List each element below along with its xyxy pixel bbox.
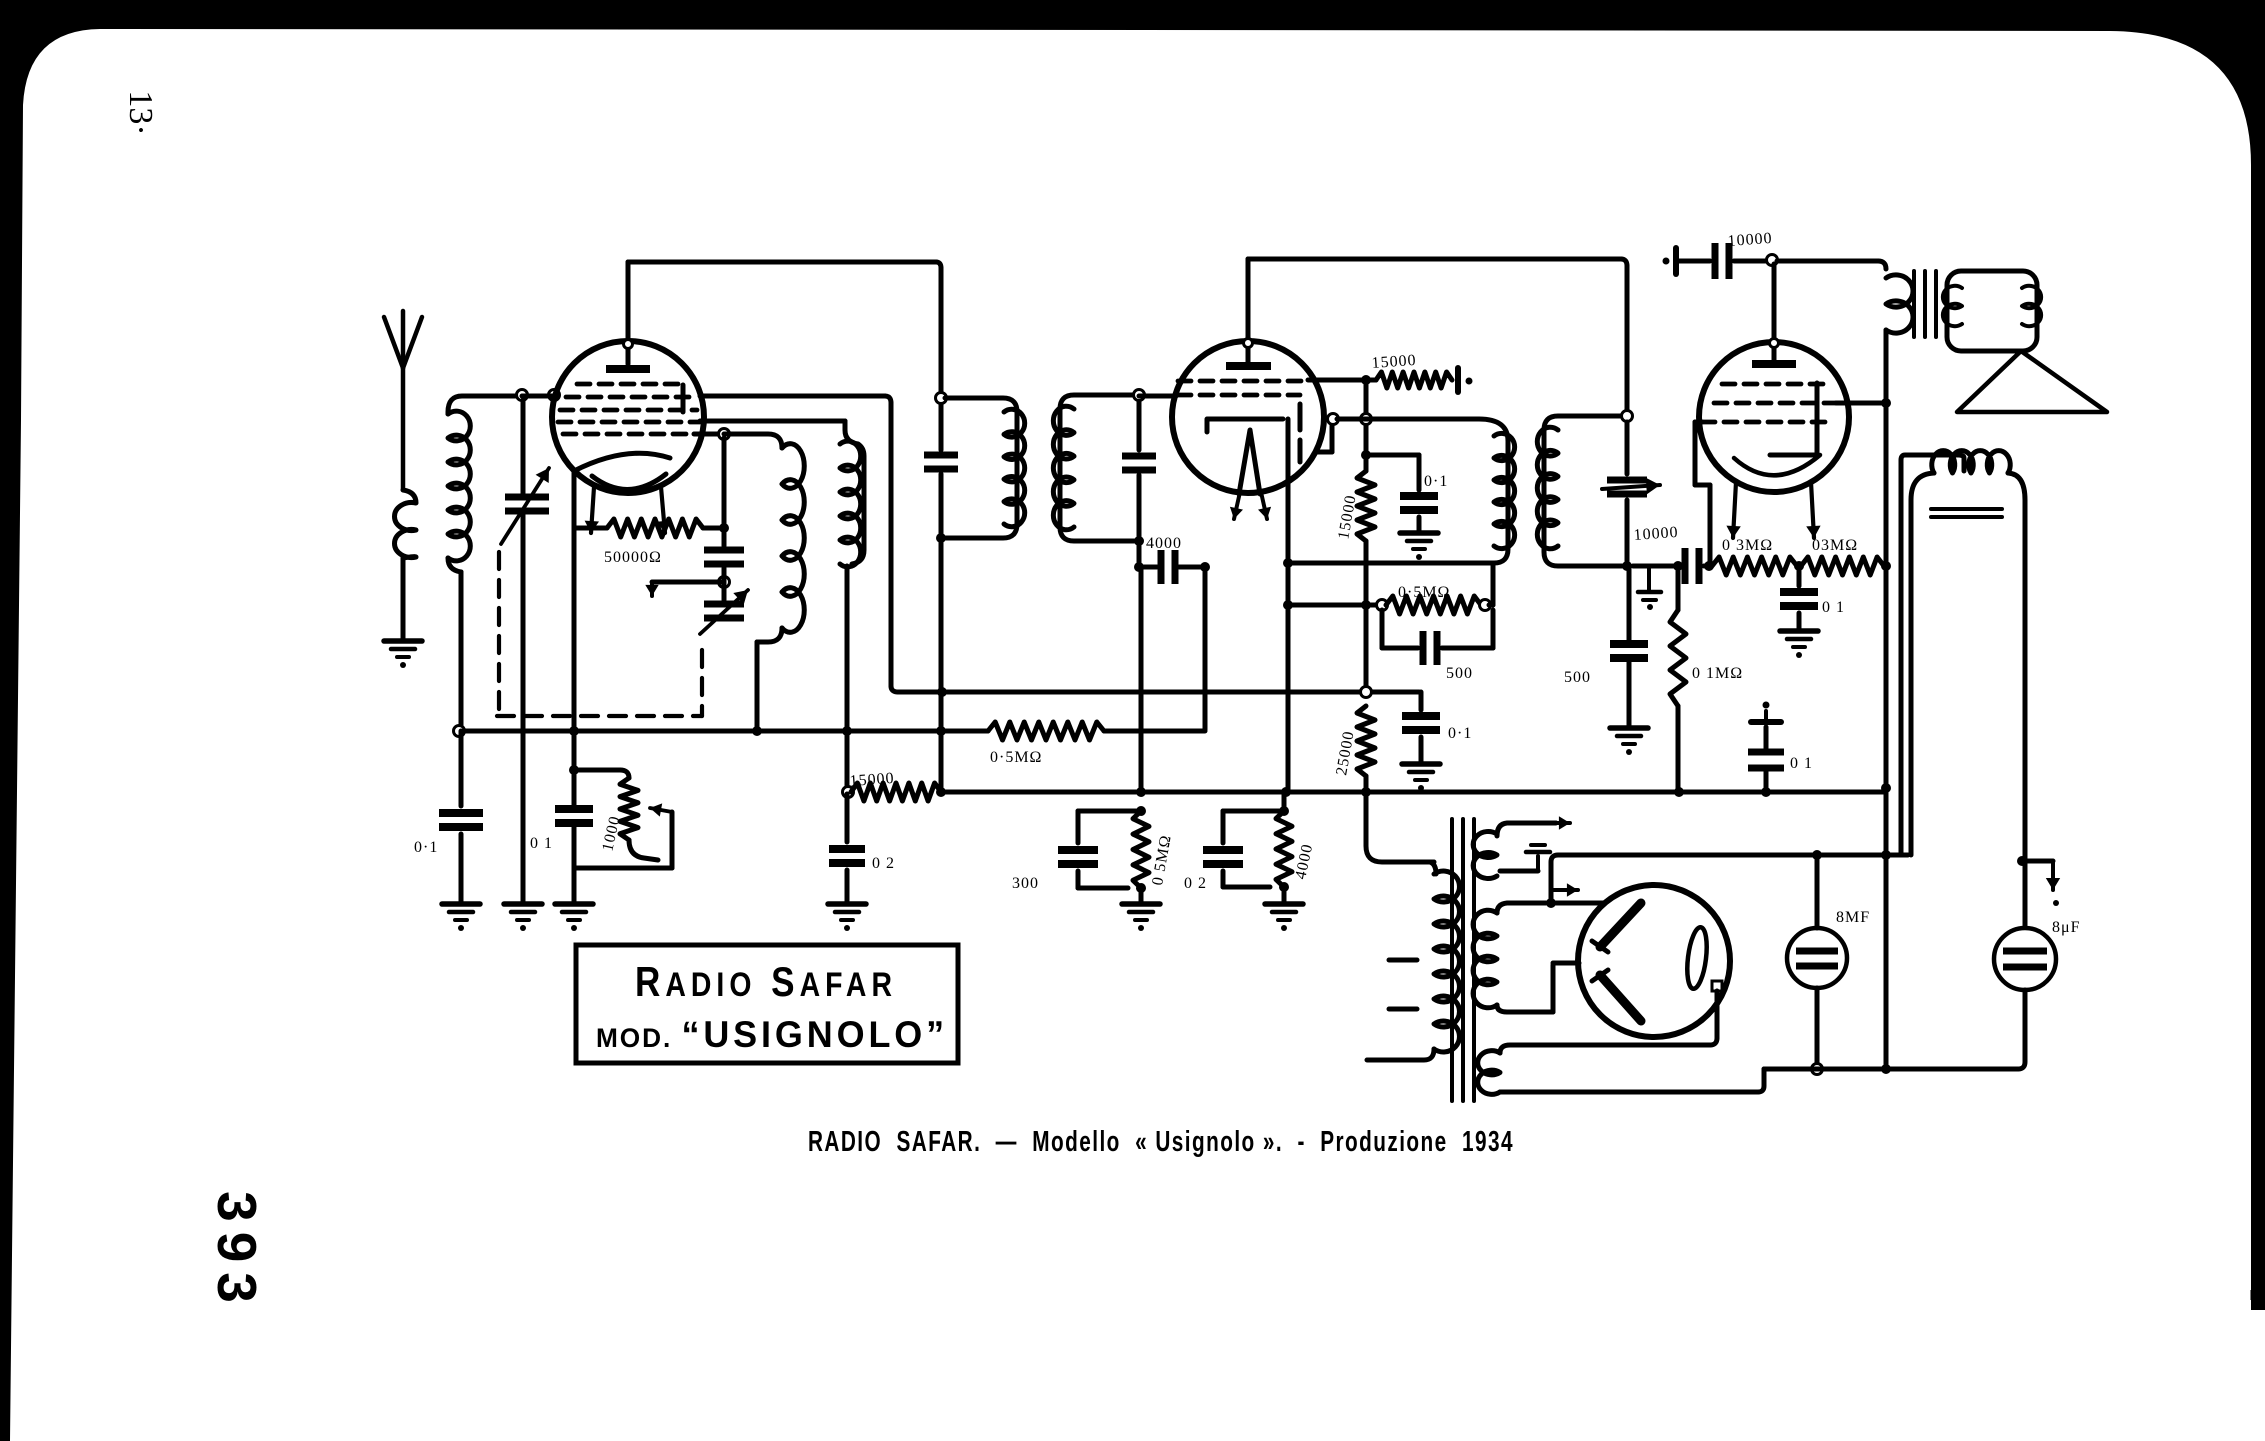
input RF coil L2 (secondary) (448, 396, 522, 414)
tube V2 envelope (IF amplifier) (1172, 341, 1324, 493)
svg-text:03MΩ: 03MΩ (1812, 537, 1858, 554)
node 0.3M junction (1794, 561, 1804, 571)
wire rail y=792 to output stage (944, 790, 1884, 795)
ground (0.1 grid return) (1402, 761, 1440, 767)
tube V3 cathode arrows (1733, 482, 1736, 538)
svg-text:15000: 15000 (849, 770, 895, 790)
ground (antenna) (384, 638, 422, 644)
resistor 0.3M (right) (1801, 557, 1884, 575)
node V1 top cap crossing (624, 340, 633, 349)
center-tap ground (inverted) (1500, 869, 1538, 874)
wire L2 top to tube 1 grid (522, 394, 556, 399)
resistor 0.3M (tone/divider left) (1712, 557, 1797, 575)
ganged tuning dashed link (497, 552, 501, 716)
node V3 grid (1704, 561, 1714, 571)
capacitor 0.1 (grid return) (1419, 692, 1424, 710)
wire AVC bus y=731 with 0.5M in series (454, 726, 465, 737)
variable capacitor CV2 (padder, oscillator) (722, 586, 727, 600)
wire HT rail corner down (x=941) (936, 262, 941, 268)
wire osc right winding bottom down (845, 566, 850, 790)
output transformer primary (1886, 275, 1913, 333)
resistor 0.5M with 500 cap (diode load) (1288, 603, 1378, 608)
resistor 15000 (V2 screen feed) (1308, 378, 1376, 383)
junction field coil right (2017, 856, 2027, 866)
IF transformer 2 secondary winding (1544, 416, 1628, 566)
svg-text:0 3MΩ: 0 3MΩ (1722, 537, 1773, 554)
svg-text:500: 500 (1564, 669, 1591, 686)
wire V3 grid staircase (1695, 420, 1702, 425)
svg-text:RADIO SAFAR. — Modello « U: RADIO SAFAR. — Modello « Usignolo ». - P… (808, 1126, 1514, 1158)
svg-text:0·1: 0·1 (1424, 473, 1448, 490)
capacitor 0.1 (left, on bus end) (459, 731, 464, 806)
antenna (401, 311, 406, 366)
wire antenna to ground (401, 558, 406, 640)
wire 4000 node down to bus end (1203, 567, 1208, 729)
rectifier filament lens (1684, 926, 1709, 990)
node 4000 right (1200, 562, 1210, 572)
svg-text:0 1: 0 1 (1822, 599, 1845, 616)
electrolytic capacitor 8MF (left) (1815, 855, 1820, 928)
svg-text:393: 393 (206, 1191, 268, 1313)
wire oscillator grid line (V1 row to osc coil) (694, 432, 724, 437)
node IF2 secondary top (1622, 411, 1633, 422)
capacitor 10000 (AF coupling) (1633, 564, 1680, 569)
svg-text:0 1: 0 1 (1790, 755, 1813, 772)
svg-text:0 2: 0 2 (872, 855, 895, 872)
tube V1 anode arrow (right) (661, 487, 665, 533)
capacitor (osc grid, fixed) (704, 547, 744, 554)
potentiometer 1000 (filament rheostat) (569, 765, 579, 775)
svg-text:8μF: 8μF (2052, 919, 2080, 936)
svg-text:300: 300 (1012, 875, 1039, 892)
ground (0.2) (828, 901, 866, 907)
junction to B+ riser (1546, 898, 1556, 908)
wire grid-return rail y=692 (898, 690, 1419, 695)
wire plate rail to output transformer (1777, 259, 1878, 264)
arrow to ground (field) (2022, 859, 2053, 864)
output transformer core (1912, 271, 1916, 337)
wire x=1366 down to mains transformer (1366, 792, 1434, 862)
capacitor 500 (parallel) (1380, 610, 1385, 648)
node V3 plate rail (1767, 255, 1778, 266)
tube V2 anode bar (1226, 362, 1271, 370)
svg-text:RADIO SAFAR: RADIO SAFAR (635, 958, 897, 1005)
svg-text:13·: 13· (122, 90, 159, 135)
tube V2 grids (dashed) (1178, 379, 1303, 384)
rectifier filament winding (1478, 1051, 1500, 1095)
tube V2 cathode arrows (1234, 492, 1240, 519)
antenna coupling coil L1 (394, 490, 416, 558)
wire OT primary down (x=1886) (1884, 330, 1889, 1066)
oscillator coil left winding (724, 434, 782, 448)
HT secondary main winding (1473, 910, 1497, 1008)
electrolytic capacitor 8MF (right) (2024, 500, 2026, 928)
field coil (speaker field) (1911, 473, 1934, 855)
ground (0.1 left) (442, 901, 480, 907)
node osc grid (719, 429, 730, 440)
AVC arrow to left (652, 580, 724, 585)
tube V2 filament (1239, 430, 1260, 494)
rectifier tube V4 envelope (1578, 885, 1730, 1037)
ground (0.5M) (1122, 901, 1160, 907)
arrow (filament tap) (1551, 888, 1578, 892)
rectifier anode 2 (1600, 975, 1641, 1021)
screen bypass terminal (1455, 368, 1461, 392)
wire screen divider chain x=1366 (1364, 380, 1369, 471)
wire node down through capacitors (722, 438, 727, 546)
tube V2 screen bracket (1330, 419, 1335, 452)
capacitor 0.1 (cathode V1) (555, 805, 593, 813)
wire B+ bottom rail y=1069 (1764, 1067, 2018, 1072)
resistor 0.1M (grid leak V3) (1673, 561, 1683, 571)
tube V2 top-cap lead (1246, 259, 1251, 362)
variable capacitor (IF2 trimmer) (1607, 477, 1647, 484)
resistor 15000 (vertical, divider) (1357, 471, 1375, 541)
IF transformer 2 primary winding (1290, 419, 1508, 563)
padder capacitor (IF1 secondary) (1122, 453, 1156, 460)
wire IF1 secondary right leg (1137, 395, 1142, 450)
node V3 top cap crossing (1770, 339, 1779, 348)
wire V2 plate down (x=1288) (1286, 419, 1291, 792)
resistor-capacitor 0.2/4000 (AF filter 2) (1279, 806, 1289, 816)
svg-text:0 1: 0 1 (530, 835, 553, 852)
node at tube 1 grid entry (549, 390, 560, 401)
rectifier anode 1 (1600, 903, 1641, 947)
svg-text:8MF: 8MF (1836, 909, 1870, 926)
wire HT rail (top, V1 plate to IF transformer 1) (628, 260, 936, 265)
ground (tone cap) (1780, 628, 1818, 634)
wire IF1 secondary to V2 grid (1139, 394, 1176, 399)
resistor 25000 (vertical) (1357, 706, 1375, 776)
capacitor 0.2 (bias bypass) (845, 794, 850, 842)
node V2 top cap crossing (1244, 339, 1253, 348)
tube V3 anode bar (1752, 360, 1796, 368)
tube V2 anode box (1207, 419, 1283, 432)
wire osc left winding to bus (755, 642, 760, 731)
wire CV1 to ground (521, 514, 526, 902)
field coil inner lead (1901, 455, 1964, 853)
IF transformer 1 secondary winding (1060, 395, 1139, 541)
resistor-capacitor 300/0.5M (AF filter) (1136, 806, 1146, 816)
svg-text:500: 500 (1446, 665, 1473, 682)
capacitor 4000 (IF1 secondary return) (1139, 565, 1157, 570)
wire plate lead into rectifier (1551, 901, 1605, 906)
capacitor 0.1 (chassis connector on HT rail) (1764, 771, 1769, 790)
capacitor 10000 (top, plate blocking) (1673, 248, 1679, 274)
oscillator coil right winding (845, 421, 864, 564)
tube V2 diode plates (1298, 404, 1303, 430)
svg-text:50000Ω: 50000Ω (604, 549, 662, 566)
speaker coil loops (1943, 286, 1962, 326)
title box RADIO SAFAR MOD USIGNOLO (576, 945, 958, 1063)
resistor 15000 (bias divider) on rail 792 (843, 787, 854, 798)
svg-text:0·1: 0·1 (414, 839, 438, 856)
small ground on secondary return (1647, 566, 1651, 590)
mains transformer primary (1430, 862, 1436, 874)
node IF1 secondary top (grid V2) (1134, 390, 1145, 401)
wire x=1627 to 500 cap (1627, 566, 1632, 640)
HT winding lower tap (1497, 1005, 1512, 1012)
IF transformer 1 primary winding (945, 398, 1017, 538)
tube V3 top-cap lead (1772, 264, 1777, 360)
wire V1 output line to IF stage (line A) (700, 394, 885, 399)
wire V1 cathode down (572, 470, 577, 768)
junction 15000 right / rail 792 (936, 787, 946, 797)
wire rectifier output down (1715, 991, 1720, 1038)
mains primary taps (1389, 958, 1417, 963)
node A (grid of tube 1 / tuning cap top) (517, 390, 528, 401)
svg-text:0·5MΩ: 0·5MΩ (1398, 584, 1450, 601)
node V2 screen (1328, 414, 1339, 425)
speaker voice-coil box (1947, 271, 2037, 351)
tube V1 envelope (frequency changer) (552, 341, 704, 493)
svg-text:0 1MΩ: 0 1MΩ (1692, 665, 1743, 682)
arrow (pilot tap) (1540, 821, 1570, 825)
resistor 50000 ohm (cathode bias) (574, 526, 607, 531)
wire V1 grid2 to oscillator right winding (700, 419, 845, 424)
tube V1 cathode arcs (574, 453, 670, 471)
tube V3 envelope (output pentode) (1699, 342, 1849, 492)
rectifier output node (1712, 981, 1722, 991)
tube V1 screen tie bar (681, 385, 686, 412)
svg-text:0·5MΩ: 0·5MΩ (990, 749, 1042, 766)
svg-text:0 2: 0 2 (1184, 875, 1207, 892)
wire V3 plate row to OT (1836, 401, 1884, 406)
wire 50000 right to node (703, 526, 724, 531)
tube V1 anode top-cap lead to HT rail (626, 262, 631, 364)
ground (4000) (1265, 901, 1303, 907)
svg-text:10000: 10000 (1633, 524, 1679, 544)
wire rail2 corner down at x=1627 (1621, 259, 1627, 266)
ground (screen bypass) (1400, 530, 1438, 536)
svg-text:0·1: 0·1 (1448, 725, 1472, 742)
svg-text:4000: 4000 (1146, 535, 1182, 552)
ground (cathode V1) (555, 901, 593, 907)
ground (500 cap) (1610, 725, 1648, 731)
variable capacitor CV1 (tuning gang section 1) (521, 400, 526, 494)
speaker cone (1957, 351, 2107, 412)
tube V3 grids (dashed) (1722, 382, 1826, 387)
node AVC tap (719, 577, 730, 588)
wire B+ rail y=855 (1551, 855, 1908, 899)
capacitor 0.1 (screen bypass) (1366, 453, 1419, 458)
tube V1 cathode arrow (left) (591, 487, 594, 533)
tube V1 anode bar (606, 365, 650, 373)
tube V1 grids (dashed) (577, 382, 679, 387)
capacitor 0.1 (tone) (1797, 566, 1802, 586)
node IF1 primary top (936, 393, 947, 404)
wire L2 bottom to bus (459, 572, 464, 731)
wire HT rail 2 (V2 plate rail) (1248, 257, 1621, 262)
svg-text:15000: 15000 (1371, 352, 1417, 372)
HT secondary top (pilot) winding (1473, 832, 1497, 879)
node IF1 primary bottom (936, 533, 946, 543)
node IF1 secondary bottom (1134, 536, 1144, 546)
ground (tuning cap CV1) (504, 901, 542, 907)
svg-text:10000: 10000 (1727, 230, 1773, 250)
mains transformer core (1450, 819, 1454, 1101)
field coil core bars (1931, 507, 2002, 511)
padder capacitor (IF1 primary) (924, 452, 958, 459)
tube V3 cathode arcs (1734, 455, 1820, 475)
tube V3 anode box (1770, 383, 1817, 455)
capacitor 500 (detector output) (1610, 640, 1648, 648)
wire IF1 secondary bottom down to rail 792 (1139, 567, 1144, 790)
